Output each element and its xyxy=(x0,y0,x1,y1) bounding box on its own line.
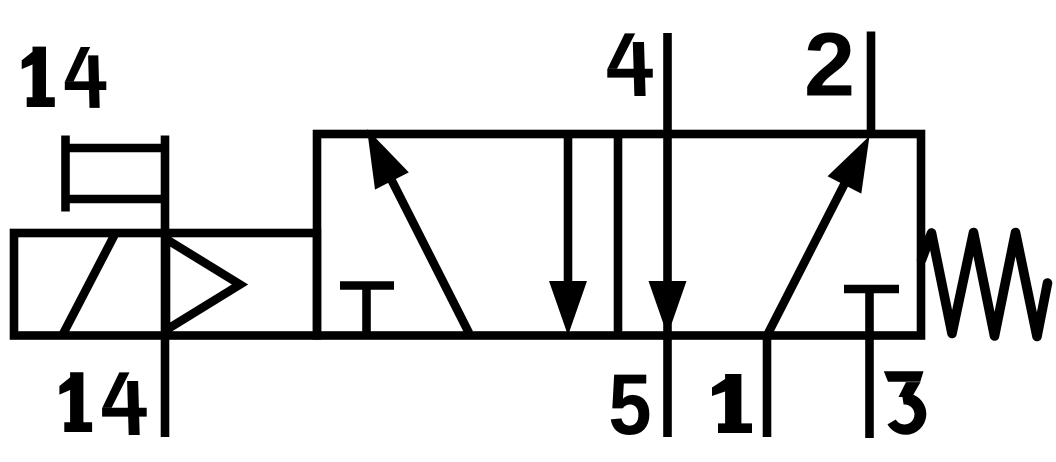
label 14 top: digit 4 xyxy=(65,47,107,108)
label 14 top: digit 1 xyxy=(22,47,55,107)
valve body xyxy=(317,134,921,336)
arrow 1-4 shaft xyxy=(390,177,469,333)
arrowhead 2-3 down xyxy=(549,281,587,336)
label port 1 xyxy=(712,374,752,433)
label 14 bottom: digit 4 xyxy=(102,372,147,435)
pilot connector bottom line xyxy=(62,195,169,204)
label port 3 xyxy=(884,371,927,434)
svg-text:5: 5 xyxy=(608,357,651,453)
label 14 bottom: digit 1 xyxy=(59,372,92,432)
arrowhead 4-5 down xyxy=(649,281,687,336)
port 1 line xyxy=(763,332,772,437)
arrowhead 1-4 up xyxy=(367,129,409,190)
arrow 1-2 shaft xyxy=(767,181,846,336)
port 3 line xyxy=(865,289,874,438)
pilot connector top line xyxy=(62,144,169,153)
blocked port T right xyxy=(844,285,899,294)
arrowhead 1-2 up xyxy=(828,136,870,194)
pilot connector left bar xyxy=(61,136,70,212)
svg-text:2: 2 xyxy=(804,15,855,115)
blocked port T left bar xyxy=(340,281,394,290)
chamber divider xyxy=(614,134,623,336)
solenoid box xyxy=(14,233,317,336)
pilot line 14 vertical xyxy=(161,136,170,438)
spring return xyxy=(922,233,1048,337)
blocked port T left stem xyxy=(362,286,371,336)
solenoid diagonal xyxy=(63,234,115,334)
port 2 line xyxy=(867,32,876,139)
pilot triangle xyxy=(166,239,240,330)
port 4/5 line xyxy=(663,33,672,437)
label port 4 xyxy=(607,33,653,96)
arrow 2-3 shaft xyxy=(564,134,573,288)
